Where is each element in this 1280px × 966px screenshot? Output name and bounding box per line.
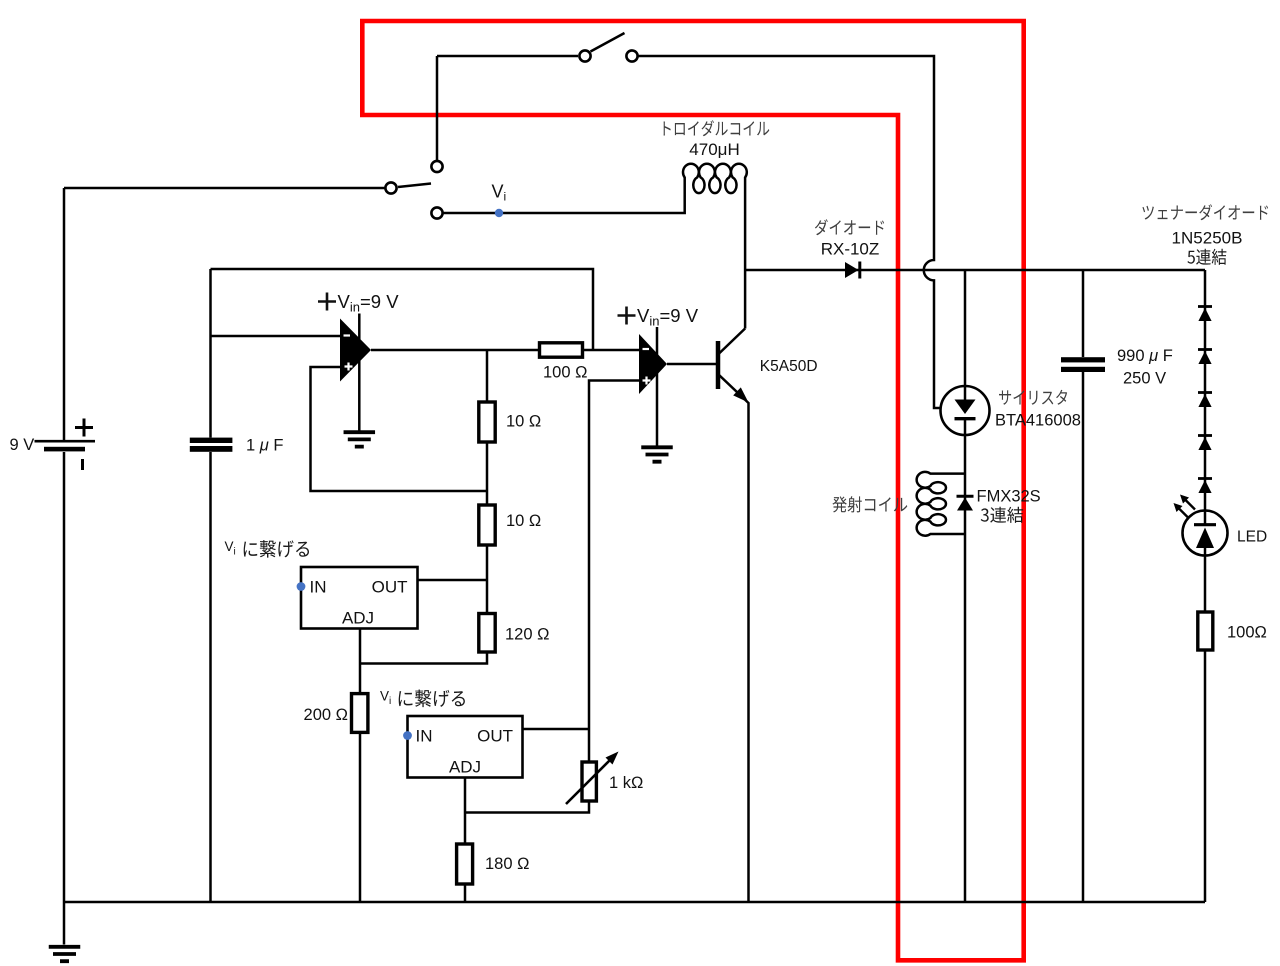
- svg-text:IN: IN: [416, 727, 433, 746]
- svg-text:100Ω: 100Ω: [1227, 624, 1267, 642]
- svg-text:RX-10Z: RX-10Z: [821, 240, 880, 259]
- svg-text:BTA416008: BTA416008: [995, 412, 1081, 430]
- svg-text:200 Ω: 200 Ω: [304, 706, 348, 724]
- svg-text:ADJ: ADJ: [342, 609, 374, 628]
- svg-text:990 μ F: 990 μ F: [1117, 347, 1173, 365]
- svg-text:470μH: 470μH: [689, 140, 739, 159]
- svg-text:IN: IN: [310, 578, 327, 597]
- svg-text:250 V: 250 V: [1123, 370, 1166, 388]
- svg-text:Vi: Vi: [492, 182, 507, 204]
- svg-text:OUT: OUT: [372, 578, 408, 597]
- svg-text:1N5250B: 1N5250B: [1172, 229, 1243, 248]
- svg-text:Vin=9 V: Vin=9 V: [338, 291, 400, 315]
- svg-text:LED: LED: [1237, 529, 1267, 546]
- svg-text:K5A50D: K5A50D: [760, 358, 818, 375]
- svg-text:ADJ: ADJ: [449, 758, 481, 777]
- svg-text:120 Ω: 120 Ω: [505, 626, 549, 644]
- svg-text:Vi: Vi: [380, 689, 391, 708]
- svg-text:Vin=9 V: Vin=9 V: [637, 305, 699, 329]
- svg-text:1 kΩ: 1 kΩ: [609, 774, 643, 792]
- svg-text:Vi: Vi: [225, 539, 236, 558]
- svg-text:1 μ F: 1 μ F: [246, 437, 283, 455]
- svg-text:FMX32S: FMX32S: [977, 488, 1041, 506]
- svg-text:100 Ω: 100 Ω: [543, 364, 587, 382]
- svg-text:OUT: OUT: [477, 727, 513, 746]
- svg-text:9 V: 9 V: [10, 436, 35, 454]
- svg-text:10 Ω: 10 Ω: [506, 512, 541, 530]
- svg-text:180 Ω: 180 Ω: [485, 855, 529, 873]
- svg-text:10 Ω: 10 Ω: [506, 413, 541, 431]
